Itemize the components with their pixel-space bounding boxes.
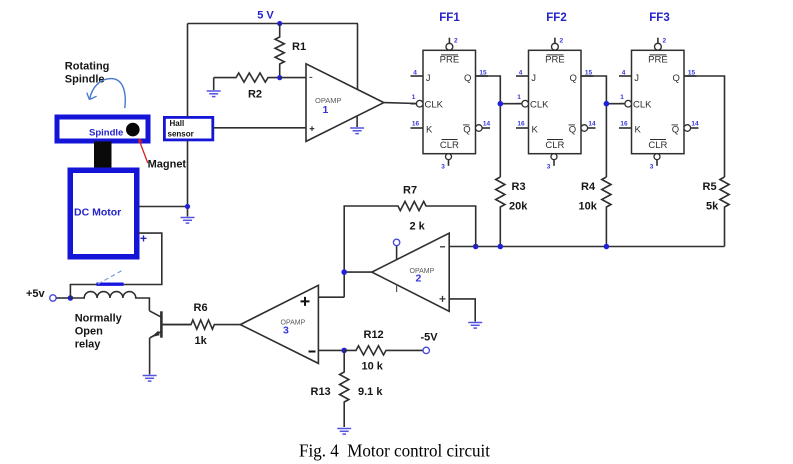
svg-text:FF2: FF2 [546, 12, 566, 24]
node R12 R13 junction [341, 348, 347, 354]
wire opamp U2 noninverting input to ground [449, 299, 475, 322]
relay contact bar [96, 283, 123, 286]
resistor R13 [311, 350, 384, 427]
svg-text:+5v: +5v [26, 288, 46, 300]
op-amp U3 [240, 285, 318, 363]
svg-text:R13: R13 [311, 386, 331, 398]
svg-text:1k: 1k [195, 335, 208, 347]
svg-text:R4: R4 [581, 181, 596, 193]
wire hall sensor bottom to ground node [187, 141, 189, 217]
resistor R12 [344, 329, 423, 373]
wire +5v to relay node [56, 297, 70, 299]
ground hall sensor [181, 218, 195, 224]
svg-text:2 k: 2 k [410, 221, 426, 233]
ground R2 [207, 91, 221, 97]
relay actuation dashed line [98, 271, 122, 284]
node R1 R2 opamp junction [277, 75, 282, 80]
svg-text:10 k: 10 k [362, 361, 384, 373]
resistor R2 [214, 73, 280, 101]
svg-text:Normally: Normally [75, 313, 123, 325]
hall sensor U4 [164, 117, 212, 139]
label Normally Open relay [75, 313, 123, 351]
resistor R4 [579, 177, 612, 247]
wire opamp U3 inverting input to R12 R13 node [318, 349, 344, 351]
node bus R4 junction [604, 244, 610, 250]
svg-text:R5: R5 [703, 181, 717, 193]
node U2 output junction [341, 269, 347, 275]
svg-text:R12: R12 [364, 329, 384, 341]
node bus R3 junction [498, 244, 504, 250]
svg-text:R6: R6 [194, 302, 208, 314]
flip-flop FF3 [619, 37, 699, 170]
svg-text:2: 2 [416, 273, 422, 285]
ground op-amp U1 [350, 116, 364, 134]
terminal +5v [26, 288, 56, 301]
svg-text:OPAMP: OPAMP [410, 268, 435, 275]
svg-text:5k: 5k [706, 201, 719, 213]
svg-text:Fig. 4 Motor control circuit: Fig. 4 Motor control circuit [299, 441, 490, 461]
ground transistor emitter [143, 376, 157, 382]
wire 5V top rail [188, 23, 359, 25]
wire FF2 Q to FF3 CLK and R4 [581, 76, 625, 177]
DC motor M1 [70, 170, 137, 257]
spindle box [57, 117, 148, 141]
svg-text:R7: R7 [403, 185, 417, 197]
svg-text:-5V: -5V [421, 332, 439, 344]
resistor R7 feedback [344, 185, 476, 273]
svg-text:relay: relay [75, 339, 102, 351]
svg-text:Open: Open [75, 326, 103, 338]
magnet dot [126, 123, 140, 137]
resistor R1 [275, 24, 306, 78]
wire relay contact to DC motor plus [70, 233, 161, 298]
svg-text:R3: R3 [512, 181, 526, 193]
resistor R5 [703, 177, 730, 247]
op-amp U2 [372, 233, 449, 311]
transistor Q1 [149, 311, 191, 375]
wire DC motor to ground node [139, 206, 188, 208]
svg-text:R2: R2 [248, 89, 262, 101]
svg-text:+: + [140, 232, 147, 246]
node 5V rail R1 junction [277, 21, 282, 26]
svg-text:20k: 20k [509, 201, 528, 213]
svg-text:10k: 10k [579, 201, 598, 213]
ground R13 [337, 429, 351, 435]
op-amp U2 positive supply pin circle [393, 239, 399, 259]
node FF1 Q to FF2 CLK junction [498, 101, 504, 107]
node relay junction [68, 295, 74, 301]
svg-text:Rotating: Rotating [65, 61, 110, 73]
svg-text:sensor: sensor [168, 130, 194, 139]
relay coil L1 [70, 292, 149, 311]
svg-text:1: 1 [323, 104, 329, 116]
wire junction to opamp inverting input [280, 77, 306, 79]
flip-flop FF1 [411, 37, 491, 170]
svg-text:DC Motor: DC Motor [74, 207, 121, 219]
svg-text:FF3: FF3 [649, 12, 669, 24]
node bus R7 junction [473, 244, 479, 250]
svg-text:FF1: FF1 [439, 12, 460, 24]
wire FF3 Q to R5 [684, 76, 725, 177]
svg-text:Hall: Hall [170, 119, 185, 128]
label Rotating Spindle [65, 61, 110, 86]
op-amp U1 [306, 64, 384, 142]
wire rail to hall sensor top [187, 24, 189, 118]
resistor R6 [163, 302, 240, 347]
rotation arc arrow [87, 79, 125, 109]
magnet pointer arrow (red) [138, 138, 148, 163]
wire FF1 Q to FF2 CLK and R3 [476, 76, 523, 177]
motor shaft [94, 142, 112, 169]
svg-text:9.1 k: 9.1 k [358, 386, 383, 398]
wire opamp U2 output to opamp U3 noninverting input [318, 272, 371, 297]
ground op-amp U2 [468, 323, 482, 329]
flip-flop FF2 [516, 37, 596, 170]
resistor R3 [496, 177, 529, 247]
wire 5V supply to opamp U1 [357, 24, 359, 90]
op-amp U2 negative supply stub [396, 285, 398, 292]
terminal -5V [421, 332, 439, 354]
svg-text:3: 3 [283, 325, 289, 337]
node hall ground junction [185, 204, 190, 209]
node FF2 Q to FF3 CLK junction [604, 101, 610, 107]
wire summing bus to opamp U2 inverting input [449, 246, 724, 248]
svg-text:Spindle: Spindle [89, 128, 123, 139]
svg-text:Magnet: Magnet [148, 159, 187, 171]
svg-text:5 V: 5 V [257, 10, 274, 22]
wire hall output to opamp noninverting input [213, 127, 306, 129]
svg-text:R1: R1 [292, 41, 306, 53]
wire opamp U1 output to FF1 CLK [384, 102, 417, 105]
